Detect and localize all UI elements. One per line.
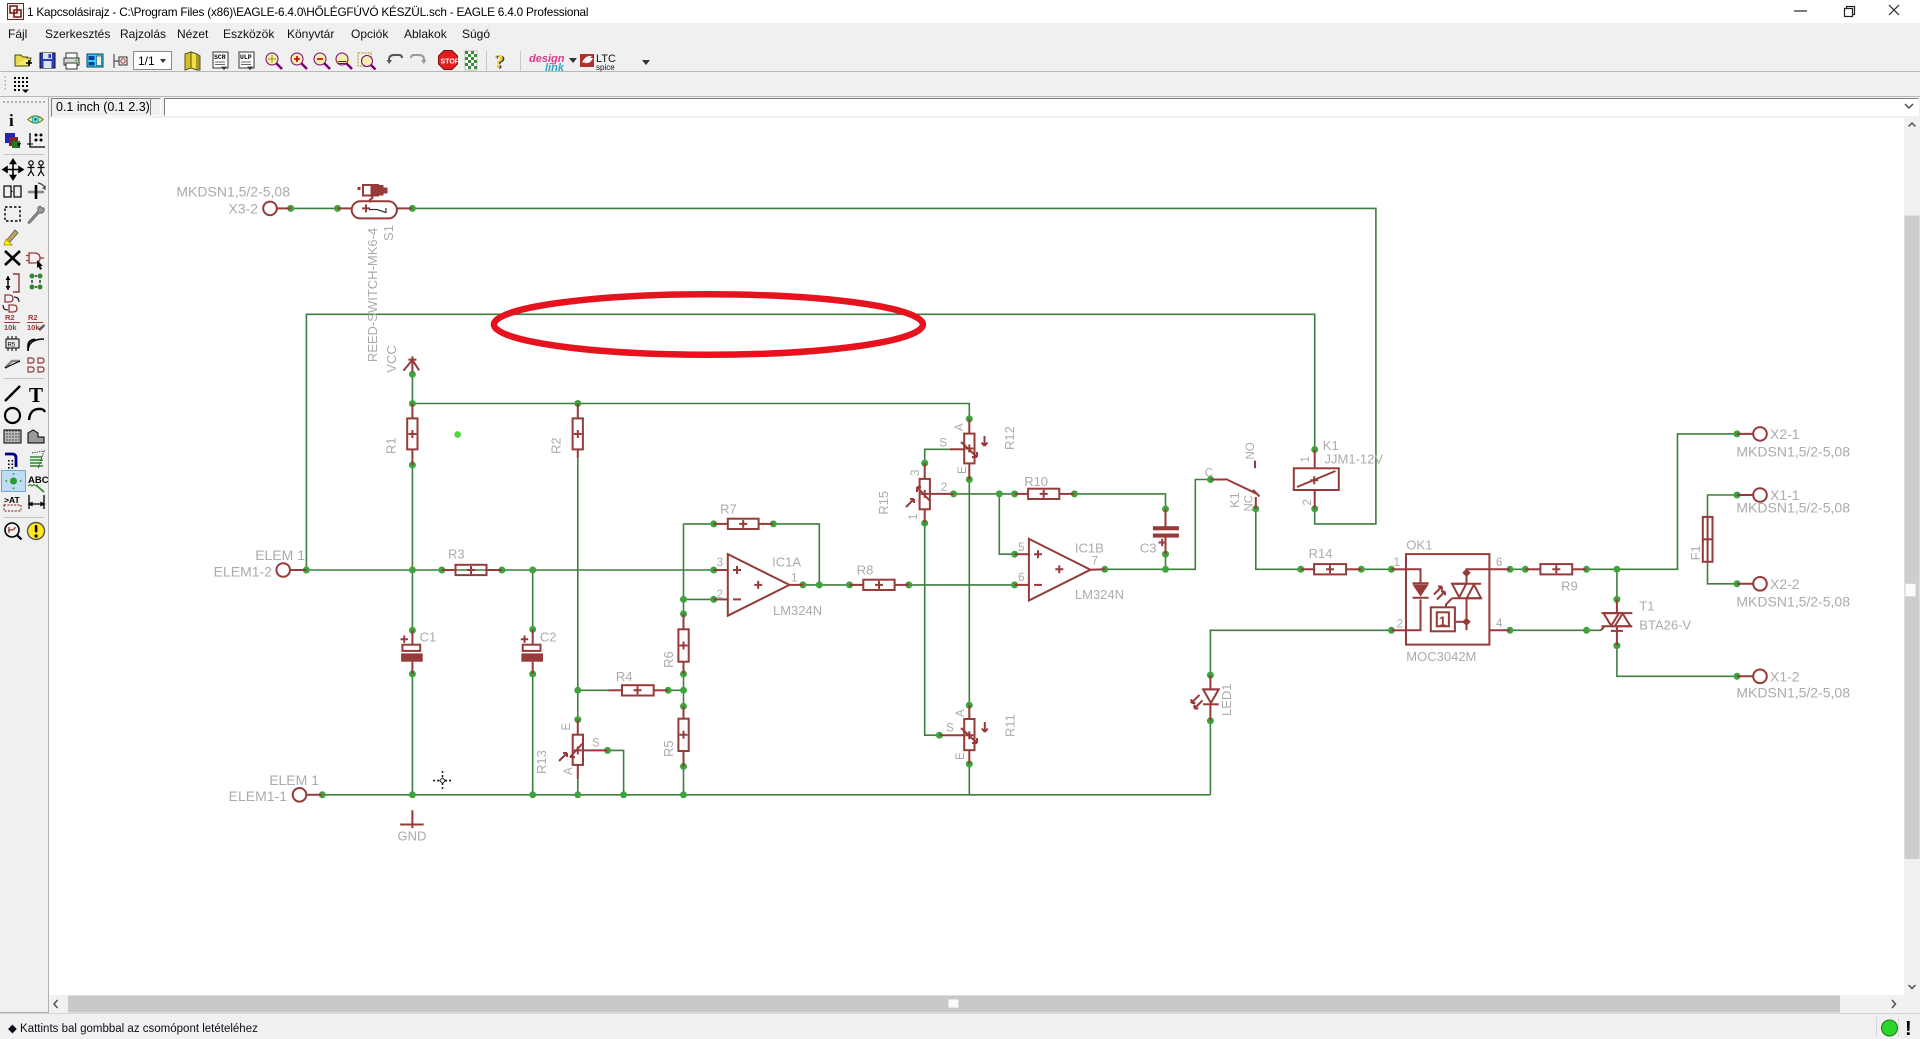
wire R11 E bottom xyxy=(968,764,970,795)
wire net relay coil pin1 to bus2 loop to ELEM1-2 xyxy=(306,314,1314,570)
relay contact K1 xyxy=(1205,442,1260,511)
ULP icon xyxy=(239,52,254,70)
svg-text:REED-SWITCH-MK6-4: REED-SWITCH-MK6-4 xyxy=(365,228,380,362)
pad X2-2 xyxy=(1736,576,1850,610)
wire R4 left xyxy=(578,689,609,691)
svg-text:R2: R2 xyxy=(28,313,38,322)
wire IC1A pin2 xyxy=(684,598,714,600)
resistor R7 xyxy=(714,502,774,529)
eye xyxy=(28,116,43,123)
wire R4 right xyxy=(668,689,683,691)
svg-text:VCC: VCC xyxy=(384,345,399,372)
svg-text:1: 1 xyxy=(1300,456,1312,462)
rect tool xyxy=(4,430,21,443)
svg-text:STOP: STOP xyxy=(441,59,460,66)
svg-text:LM324N: LM324N xyxy=(1075,587,1124,602)
svg-text:R13: R13 xyxy=(534,750,549,774)
svg-text:OK1: OK1 xyxy=(1406,537,1432,552)
trimmer R15 xyxy=(876,463,954,523)
wire C1 bottom to GND row xyxy=(411,674,413,795)
move xyxy=(3,160,23,180)
svg-text:X2-1: X2-1 xyxy=(1770,426,1800,442)
wire R14 to OK1 pin1 xyxy=(1361,568,1391,570)
crosshair cursor xyxy=(433,771,452,790)
wire T1 bottom to X1-2 xyxy=(1617,646,1737,677)
svg-text:1/1: 1/1 xyxy=(138,54,155,68)
wire R13 wiper S to bottom row xyxy=(608,750,624,794)
circle tool xyxy=(5,408,20,423)
miter xyxy=(28,339,44,351)
mark icon xyxy=(27,133,45,147)
wire IC1A output to R8 xyxy=(803,584,850,586)
svg-text:E: E xyxy=(957,466,969,474)
wire R12 E to R11 A xyxy=(968,480,970,706)
print icon xyxy=(64,53,79,69)
svg-text:R6: R6 xyxy=(661,651,676,668)
svg-text:?: ? xyxy=(494,51,504,73)
ground symbol GND xyxy=(398,810,427,843)
svg-text:1: 1 xyxy=(791,573,797,585)
invoke xyxy=(28,358,44,372)
wire R7/R6 column xyxy=(683,524,685,614)
resistor R14 xyxy=(1301,546,1362,574)
svg-text:MKDSN1,5/2-5,08: MKDSN1,5/2-5,08 xyxy=(1736,685,1850,701)
svg-text:X3-2: X3-2 xyxy=(228,200,258,216)
redo xyxy=(411,55,427,64)
pad X1-1 xyxy=(1736,487,1850,516)
zoom fit xyxy=(266,53,282,69)
stop icon xyxy=(439,51,460,70)
svg-text:1: 1 xyxy=(1394,557,1400,569)
svg-text:K1: K1 xyxy=(1227,492,1242,508)
triac T1 xyxy=(1601,599,1691,646)
svg-text:R2: R2 xyxy=(549,437,564,454)
zoom redraw xyxy=(358,53,376,70)
pinswap xyxy=(6,274,20,292)
svg-text:>AT: >AT xyxy=(4,495,20,505)
svg-text:LED1: LED1 xyxy=(1219,683,1234,716)
rect group select xyxy=(5,207,20,221)
zoom out xyxy=(314,53,330,69)
wire R10 to C3 top xyxy=(1074,494,1165,509)
svg-text:C2: C2 xyxy=(540,630,557,645)
resistor R8 xyxy=(850,562,909,590)
wire C2 bottom xyxy=(532,674,534,795)
wire R7 row left xyxy=(684,523,714,525)
svg-text:T: T xyxy=(29,383,43,407)
annotation red ellipse xyxy=(494,294,923,354)
wire R15 pin1 to R11 S xyxy=(925,523,940,735)
wire net X3-2 to S1 xyxy=(291,207,338,209)
attribute tool xyxy=(4,495,21,511)
wire bottom ground row xyxy=(322,794,1210,796)
highlight pen xyxy=(4,230,18,245)
capacitor C2 xyxy=(521,629,557,674)
svg-text:MKDSN1,5/2-5,08: MKDSN1,5/2-5,08 xyxy=(1736,500,1850,516)
dimension tool xyxy=(29,495,44,509)
svg-text:MKDSN1,5/2-5,08: MKDSN1,5/2-5,08 xyxy=(1736,443,1850,459)
delete X xyxy=(5,251,20,265)
wire C3 bottom to output row xyxy=(1165,554,1167,569)
copy xyxy=(4,186,21,197)
svg-text:C: C xyxy=(1205,468,1213,480)
pad X3-2 xyxy=(176,183,290,216)
svg-text:NO: NO xyxy=(1245,442,1257,459)
name icon xyxy=(4,313,20,332)
svg-text:S: S xyxy=(946,723,954,735)
junction tool (selected) xyxy=(2,471,26,492)
trimmer R12 xyxy=(939,419,1017,480)
trimmer R11 xyxy=(939,705,1017,764)
svg-text:7: 7 xyxy=(1092,556,1098,568)
optocoupler OK1 xyxy=(1391,537,1510,664)
pad ELEM1-1 xyxy=(229,772,323,804)
cursor mark green dot xyxy=(454,431,461,438)
wire net S1 to relay coil pin2 (long top wire) xyxy=(412,208,1376,524)
resistor R2 xyxy=(549,404,583,459)
polygon tool xyxy=(28,430,44,443)
cam job icon xyxy=(87,54,103,67)
svg-text:X2-2: X2-2 xyxy=(1770,576,1800,592)
wire to IC1B pin5 xyxy=(999,494,1014,554)
svg-text:LM324N: LM324N xyxy=(773,603,822,618)
svg-text:GND: GND xyxy=(398,828,427,843)
fuse F1 xyxy=(1688,517,1713,562)
resistor R3 xyxy=(442,547,502,576)
net tool xyxy=(30,451,44,469)
resistor R6 xyxy=(661,614,689,674)
svg-text:BTA26-V: BTA26-V xyxy=(1639,618,1691,633)
svg-text:MOC3042M: MOC3042M xyxy=(1406,649,1476,664)
svg-text:3: 3 xyxy=(717,557,723,569)
errors tool xyxy=(28,523,45,540)
svg-text:6: 6 xyxy=(1496,557,1502,569)
svg-text:R1: R1 xyxy=(384,437,399,454)
svg-text:NC: NC xyxy=(1244,495,1256,512)
resistor R9 xyxy=(1525,564,1586,594)
capacitor C3 xyxy=(1140,509,1179,555)
wire LED1 bottom to ground row xyxy=(1209,721,1211,795)
split xyxy=(5,361,20,368)
wrench xyxy=(28,206,44,223)
pad X1-2 xyxy=(1736,668,1850,700)
svg-text:F1: F1 xyxy=(1688,545,1703,560)
LTC spice logo xyxy=(580,53,650,72)
svg-text:1: 1 xyxy=(908,514,920,520)
svg-text:ULP: ULP xyxy=(240,54,252,61)
svg-text:C3: C3 xyxy=(1140,540,1157,555)
svg-text:spice: spice xyxy=(596,63,615,72)
resistor R10 xyxy=(1015,474,1075,499)
designlink logo xyxy=(529,53,577,74)
svg-text:6: 6 xyxy=(1018,572,1024,584)
svg-text:JJM1-12V: JJM1-12V xyxy=(1325,451,1384,466)
svg-text:R7: R7 xyxy=(720,502,737,517)
trimmer R13 xyxy=(534,720,608,779)
wire X1-1 to F1 top xyxy=(1708,495,1738,517)
svg-text:4: 4 xyxy=(1496,618,1503,630)
wire F1 bottom to X2-2 xyxy=(1708,562,1738,584)
svg-text:R14: R14 xyxy=(1309,546,1333,561)
wire R12 S to R15 pin3 xyxy=(925,449,950,463)
svg-text:R12: R12 xyxy=(1002,426,1017,450)
add part xyxy=(26,253,44,270)
wire R9 to X2-1 xyxy=(1587,434,1738,569)
wire R15 wiper row to R10 xyxy=(944,493,1015,495)
open icon xyxy=(15,55,32,66)
arc tool xyxy=(29,409,45,420)
script SCR icon xyxy=(213,52,228,70)
svg-text:IC1B: IC1B xyxy=(1075,540,1104,555)
wire C2 top xyxy=(532,570,534,629)
wire OK1 pin2 to LED1 xyxy=(1210,630,1391,675)
label tool xyxy=(28,475,49,492)
svg-text:10k: 10k xyxy=(27,323,40,332)
svg-text:R10: R10 xyxy=(1024,474,1048,489)
wire relay NC to R14 xyxy=(1256,509,1301,570)
LED LED1 xyxy=(1191,675,1234,721)
svg-text:S1: S1 xyxy=(381,225,396,241)
gateswap xyxy=(30,274,43,290)
svg-text:R8: R8 xyxy=(857,562,874,577)
resistor R1 xyxy=(384,404,418,466)
erc tool xyxy=(5,523,22,540)
wire VCC stub xyxy=(411,374,413,403)
sheet selector 1/1 xyxy=(134,52,172,70)
wire R8 to IC1B pin6 xyxy=(909,584,1015,586)
wire R5 bottom xyxy=(683,766,685,794)
svg-text:S: S xyxy=(592,738,600,750)
replace xyxy=(3,295,19,312)
svg-text:1: 1 xyxy=(1439,614,1447,629)
svg-text:A: A xyxy=(955,709,967,717)
wire ELEM1-2 row to IC1A pin3 xyxy=(298,569,714,571)
resistor R5 xyxy=(661,706,689,766)
op-amp IC1B xyxy=(1015,539,1125,602)
smash xyxy=(6,336,19,351)
board icon xyxy=(114,54,127,68)
group xyxy=(28,161,45,176)
pad ELEM1-2 xyxy=(214,547,307,579)
wire R6 to R5 xyxy=(683,674,685,706)
svg-text:MKDSN1,5/2-5,08: MKDSN1,5/2-5,08 xyxy=(1736,594,1850,610)
bus tool xyxy=(5,454,16,469)
svg-text:E: E xyxy=(561,723,573,731)
svg-text:MKDSN1,5/2-5,08: MKDSN1,5/2-5,08 xyxy=(176,183,290,199)
zoom in xyxy=(291,53,307,69)
svg-text:2: 2 xyxy=(717,589,723,601)
svg-text:R3: R3 xyxy=(448,547,465,562)
svg-text:R2: R2 xyxy=(5,313,15,322)
svg-text:3: 3 xyxy=(910,470,922,476)
capacitor C1 xyxy=(401,630,437,674)
wire OK1 pin4 to T1 gate xyxy=(1510,629,1601,631)
op-amp IC1A xyxy=(714,554,822,618)
wire IC1B output to relay contact C xyxy=(1105,480,1211,570)
svg-text:R5: R5 xyxy=(661,740,676,757)
svg-text:ELEM 1: ELEM 1 xyxy=(269,772,319,788)
wire OK1 pin6 to R9 xyxy=(1510,568,1525,570)
svg-text:X1-2: X1-2 xyxy=(1770,668,1800,684)
svg-text:5: 5 xyxy=(1018,542,1024,554)
svg-text:2: 2 xyxy=(1397,618,1403,630)
svg-text:A: A xyxy=(954,423,966,431)
wire R7 row right down to output xyxy=(773,524,819,585)
svg-text:S: S xyxy=(939,437,947,449)
value icon xyxy=(27,313,45,332)
wire VCC bus to R12 xyxy=(412,404,969,419)
help icon xyxy=(494,51,506,74)
svg-text:R5: R5 xyxy=(8,343,16,349)
pad X2-1 xyxy=(1736,426,1850,459)
svg-text:R9: R9 xyxy=(1561,579,1578,594)
svg-text:ABC: ABC xyxy=(28,475,48,486)
wire R1 bottom to C1 xyxy=(411,465,413,630)
svg-text:C1: C1 xyxy=(420,630,437,645)
undo xyxy=(387,55,403,64)
svg-text:T1: T1 xyxy=(1639,599,1654,614)
svg-text:ELEM1-2: ELEM1-2 xyxy=(214,563,273,579)
svg-text:ELEM 1: ELEM 1 xyxy=(255,547,305,563)
svg-text:!: ! xyxy=(1905,1018,1912,1039)
svg-text:SCR: SCR xyxy=(214,54,226,61)
wire R13 bottom xyxy=(577,779,579,795)
svg-text:IC1A: IC1A xyxy=(772,555,801,570)
wire T1 top column xyxy=(1616,569,1618,599)
svg-text:i: i xyxy=(9,111,14,130)
svg-text:10k: 10k xyxy=(4,323,17,332)
supply symbol VCC xyxy=(384,345,419,372)
wire tool xyxy=(5,386,20,401)
svg-text:R11: R11 xyxy=(1003,714,1018,737)
save icon xyxy=(40,53,55,68)
library icon xyxy=(185,52,200,70)
svg-text:A: A xyxy=(563,767,575,775)
display layers xyxy=(5,133,21,148)
svg-text:2: 2 xyxy=(1302,499,1314,505)
svg-text:ELEM1-1: ELEM1-1 xyxy=(229,788,288,804)
resistor R4 xyxy=(608,669,668,695)
go icon xyxy=(465,51,477,70)
reed switch S1 xyxy=(338,185,413,362)
svg-text:E: E xyxy=(955,752,967,760)
relay coil K1 xyxy=(1294,438,1384,509)
svg-text:R15: R15 xyxy=(876,491,891,515)
wire R2 bottom to R13 E xyxy=(577,458,579,720)
mirror xyxy=(28,183,45,199)
zoom select xyxy=(336,53,352,69)
svg-text:2: 2 xyxy=(941,482,947,494)
svg-text:R4: R4 xyxy=(616,669,633,684)
